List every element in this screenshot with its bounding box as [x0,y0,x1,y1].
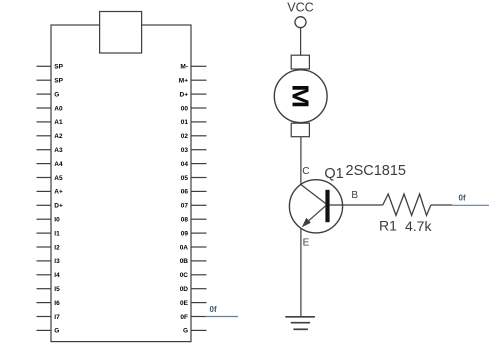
motor M1 letter M [287,84,314,108]
svg-text:0D: 0D [180,286,189,293]
svg-text:R1: R1 [379,218,397,234]
pin M- (right 1) [180,64,206,71]
pin G (left 20) [37,328,60,335]
pin I7 (left 19) [37,314,61,321]
svg-text:D+: D+ [54,203,63,210]
wire VCC to motor [300,28,302,56]
svg-text:A2: A2 [54,133,63,140]
pin 01 (right 5) [181,119,207,126]
svg-text:VCC: VCC [287,1,313,15]
svg-text:4.7k: 4.7k [405,218,432,234]
pin I0 (left 12) [37,217,61,224]
svg-text:M: M [287,84,314,108]
pin I2 (left 14) [37,244,61,251]
motor M1 top terminal [291,55,309,69]
pin A4 (left 8) [37,161,63,168]
wire net 0f from pin 0F [205,316,238,318]
wire net 0f (right) [452,204,489,206]
pin 0E (right 18) [180,300,206,307]
pin G (right 20) [183,328,207,335]
svg-text:I0: I0 [54,217,60,224]
transistor Q1 emitter stroke with arrow [302,206,326,227]
transistor Q1 body circle [289,180,342,233]
pin 07 (right 11) [181,203,207,210]
svg-text:I4: I4 [54,272,60,279]
transistor Q1 base bar [325,190,329,222]
pin 02 (right 6) [181,133,207,140]
svg-text:M+: M+ [179,78,188,85]
motor M1 bottom terminal [291,123,309,137]
pin 08 (right 12) [181,217,207,224]
svg-text:I3: I3 [54,258,60,265]
svg-text:08: 08 [181,217,189,224]
pin D+ (left 11) [37,203,63,210]
pin M+ (right 2) [179,78,207,85]
pin A0 (left 4) [37,105,63,112]
pin D+ (right 3) [180,91,207,98]
pin 04 (right 8) [181,161,207,168]
pin 06 (right 10) [181,189,207,196]
pin A3 (left 7) [37,147,63,154]
svg-text:I7: I7 [54,314,60,321]
svg-text:0f: 0f [210,305,217,314]
svg-text:03: 03 [181,147,189,154]
svg-text:00: 00 [181,105,189,112]
pin 0D (right 17) [180,286,207,293]
svg-text:04: 04 [181,161,189,168]
svg-text:05: 05 [181,175,189,182]
pin 00 (right 4) [181,105,207,112]
VCC terminal circle [295,17,306,28]
svg-text:SP: SP [54,78,63,85]
pin A2 (left 6) [37,133,63,140]
svg-text:D+: D+ [180,91,189,98]
svg-text:I2: I2 [54,244,60,251]
svg-text:06: 06 [181,189,189,196]
svg-text:0f: 0f [459,193,466,202]
pin SP (left 1) [37,64,64,71]
wire emitter to ground [300,228,302,317]
pin 0C (right 16) [180,272,207,279]
svg-text:A3: A3 [54,147,63,154]
svg-text:I6: I6 [54,300,60,307]
svg-text:I5: I5 [54,286,60,293]
pin 0B (right 15) [180,258,207,265]
pin I5 (left 17) [37,286,61,293]
resistor R1 zigzag [383,194,431,215]
svg-text:02: 02 [181,133,189,140]
pin SP (left 2) [37,78,64,85]
pin A5 (left 9) [37,175,63,182]
wire resistor to net [431,204,452,206]
IC U1 body [51,25,191,342]
svg-text:I1: I1 [54,230,60,237]
svg-text:0E: 0E [180,300,189,307]
pin I3 (left 15) [37,258,61,265]
svg-text:0F: 0F [180,314,188,321]
svg-text:0C: 0C [180,272,189,279]
svg-text:01: 01 [181,119,189,126]
wire motor to collector [300,137,302,185]
svg-text:SP: SP [54,64,63,71]
pin A+ (left 10) [37,189,63,196]
pin A1 (left 5) [37,119,63,126]
svg-text:G: G [54,91,59,98]
svg-text:G: G [54,328,59,335]
pin 0A (right 14) [180,244,207,251]
transistor Q1 collector stroke [301,185,326,204]
svg-text:C: C [302,166,309,177]
pin I6 (left 18) [37,300,61,307]
pin 05 (right 9) [181,175,207,182]
pin I1 (left 13) [37,230,61,237]
motor M1 body [274,70,327,123]
svg-text:0B: 0B [180,258,189,265]
svg-text:B: B [351,190,358,201]
wire base to resistor [330,204,383,206]
svg-text:2SC1815: 2SC1815 [346,163,406,179]
svg-text:07: 07 [181,203,189,210]
pin 09 (right 13) [181,230,207,237]
svg-text:G: G [183,328,188,335]
svg-text:0A: 0A [180,244,189,251]
pin G (left 3) [37,91,60,98]
svg-text:M-: M- [180,64,188,71]
svg-text:A+: A+ [54,189,63,196]
svg-text:09: 09 [181,230,189,237]
ground [285,317,315,330]
pin 0F (right 19) [180,314,206,321]
pin 03 (right 7) [181,147,207,154]
svg-text:E: E [303,237,310,248]
svg-text:A4: A4 [54,161,63,168]
pin I4 (left 16) [37,272,61,279]
svg-text:A5: A5 [54,175,63,182]
svg-text:Q1: Q1 [324,166,343,182]
svg-text:A1: A1 [54,119,63,126]
svg-text:A0: A0 [54,105,63,112]
IC U1 top notch [100,12,142,54]
